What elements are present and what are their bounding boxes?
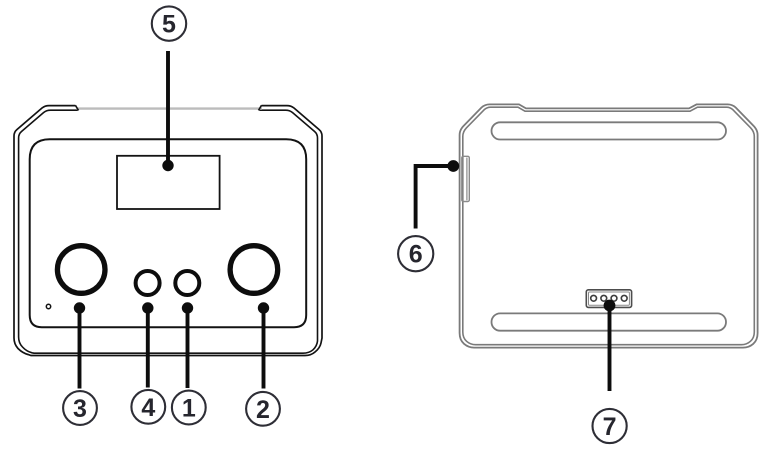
callout 7 circle	[593, 409, 627, 443]
front top recessed gray edge	[77, 107, 263, 109]
back bottom slot	[492, 313, 727, 330]
left large knob	[57, 246, 105, 294]
callout 7 dot	[604, 300, 616, 312]
callout 4 circle	[131, 390, 165, 424]
charging connector item 7	[586, 290, 631, 308]
display window	[117, 156, 220, 209]
small knob right	[175, 271, 199, 295]
callout 6 circle	[398, 236, 433, 271]
front view body inner outline	[19, 110, 318, 353]
right large knob	[230, 246, 278, 294]
svg-text:4: 4	[141, 394, 155, 422]
indicator led	[46, 304, 50, 308]
callout 5 leader	[166, 51, 170, 166]
front top right notch tick	[259, 105, 262, 110]
front top left notch tick	[75, 105, 78, 110]
back top slot	[492, 122, 727, 139]
svg-text:6: 6	[409, 241, 423, 269]
callout 2 leader	[262, 308, 266, 389]
callout 6 dot	[447, 160, 459, 172]
back view body outer outline	[460, 104, 758, 347]
callout 7 leader	[608, 306, 612, 392]
front panel	[30, 139, 307, 327]
callout 3 dot	[74, 302, 85, 313]
svg-text:2: 2	[256, 396, 270, 424]
svg-text:3: 3	[73, 395, 87, 423]
callout 1 dot	[182, 302, 193, 313]
callout 4 dot	[142, 302, 153, 313]
callout 3 circle	[63, 391, 97, 425]
svg-text:1: 1	[182, 395, 196, 423]
callout 5 circle	[152, 6, 186, 40]
callout 5 dot	[162, 160, 173, 171]
callout 2 dot	[258, 302, 269, 313]
svg-text:5: 5	[162, 11, 176, 39]
callout 1 circle	[172, 391, 206, 425]
callout 3 leader	[78, 308, 82, 389]
back view body inner outline	[463, 107, 755, 345]
front view body outer outline	[14, 106, 322, 356]
side flap item 6	[462, 156, 470, 201]
svg-text:7: 7	[603, 413, 617, 441]
callout 4 leader	[146, 308, 150, 388]
callout 6 leader	[416, 166, 454, 229]
small knob left	[136, 271, 160, 295]
callout 2 circle	[246, 392, 280, 426]
callout 1 leader	[186, 308, 190, 388]
